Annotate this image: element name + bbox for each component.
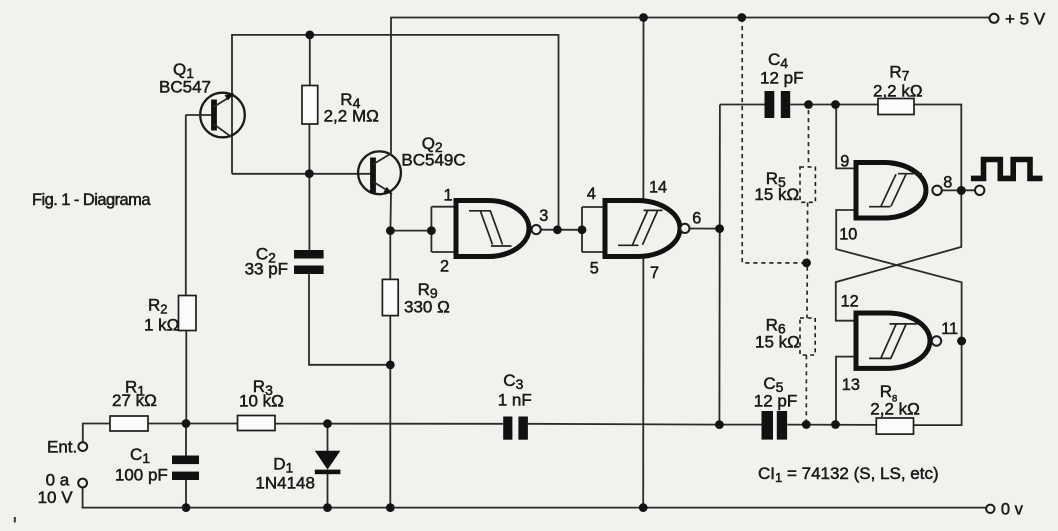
wire out11 net pin10 cross to R8 right [836, 210, 961, 425]
NAND gate U1d body [856, 313, 930, 368]
NAND gate U1a body [456, 201, 529, 257]
resistor R3 [238, 416, 276, 431]
resistor R9 [382, 279, 398, 315]
wire gate2 input bracket [582, 207, 605, 252]
wire pin9 [836, 105, 856, 169]
wire R4 bottom to C2 top [308, 124, 310, 250]
gate U1c output bubble [932, 186, 941, 195]
svg-text:12 pF: 12 pF [754, 392, 797, 411]
wire C2 bottom to R9 junction [309, 274, 390, 365]
transistor Q1 [186, 93, 245, 138]
schmitt icon U1d [869, 324, 918, 359]
resistor R7 [878, 99, 914, 115]
svg-text:13: 13 [842, 376, 860, 394]
wire C3 to C5 node [528, 423, 720, 426]
capacitor C3 plates [503, 417, 512, 440]
svg-text:1N4148: 1N4148 [255, 473, 315, 492]
node 3 [553, 225, 562, 234]
svg-text:0 v: 0 v [1001, 501, 1024, 519]
wire dashed R5 bottom to R6 top [806, 203, 809, 319]
terminal Ent [78, 442, 87, 451]
output square wave symbol [971, 160, 1043, 179]
svg-text:1: 1 [444, 187, 453, 205]
resistor R6 dashed body [800, 318, 815, 355]
node gate2 bracket [578, 225, 587, 234]
svg-text:BC547: BC547 [159, 77, 211, 96]
diode D1 [315, 451, 341, 470]
wire D1 cathode to ground [327, 474, 329, 508]
wire dashed R5 top lead [808, 110, 810, 167]
node output 11 [957, 337, 966, 346]
transistor Q2 [358, 151, 401, 194]
capacitor C5 plates [762, 411, 774, 440]
node R5 bottom dashed [802, 259, 811, 268]
wire Ent terminal to R1 [83, 424, 110, 443]
wire emitter node to gate1 bracket [390, 230, 431, 232]
svg-text:9: 9 [840, 152, 849, 170]
node R9 C2 [386, 361, 395, 370]
svg-text:BC549C: BC549C [401, 150, 465, 169]
svg-text:CI1 = 74132 (S, LS, etc): CI1 = 74132 (S, LS, etc) [758, 464, 939, 485]
node +5V power pin [639, 13, 648, 22]
node ground C1 [182, 503, 191, 512]
terminal 0v [986, 505, 994, 513]
wire out8 to output terminal [942, 189, 975, 191]
svg-text:7: 7 [650, 264, 659, 282]
NAND gate U1b body [605, 201, 680, 257]
wire input node to C1 [185, 424, 187, 456]
node D1 anode [323, 419, 332, 428]
node gate1 bracket [427, 226, 436, 235]
svg-text:2,2 MΩ: 2,2 MΩ [324, 106, 379, 125]
NAND gate U1c body [856, 163, 926, 219]
wire node3 gate1 out to gate2 bracket [541, 229, 582, 231]
svg-text:11: 11 [941, 320, 958, 338]
wire 0v bottom rail [82, 507, 987, 509]
svg-text:1 nF: 1 nF [498, 390, 532, 409]
wire R3 to C3 [275, 423, 503, 425]
node R4 bottom [305, 169, 314, 178]
node ground power pin [639, 503, 648, 512]
terminal 0a10V [78, 479, 87, 488]
svg-text:10: 10 [839, 226, 857, 244]
svg-text:0 a: 0 a [46, 471, 70, 490]
stray mark bottom left [14, 517, 16, 523]
wire C5 left lead [719, 424, 761, 426]
node R4 top [305, 31, 314, 40]
wire R1 to R3 [148, 423, 238, 425]
svg-text:Fig. 1 - Diagrama: Fig. 1 - Diagrama [32, 191, 151, 209]
node ground D1 [323, 503, 332, 512]
gate U1d output bubble [932, 336, 941, 345]
wire node6 gate2 out to C4 column [690, 228, 720, 230]
wire R9 bottom to ground [389, 316, 391, 508]
gate U1b output bubble [680, 224, 689, 233]
wire dashed R6 bottom lead [805, 355, 807, 424]
wire Q2 emitter lead [389, 193, 392, 231]
wire pin13 to C5 node [836, 357, 856, 425]
gate U1a output bubble [532, 225, 541, 234]
svg-text:+ 5 V: + 5 V [1005, 9, 1046, 28]
node C4 R5 [804, 100, 813, 109]
svg-text:5: 5 [590, 259, 599, 277]
node output 8 [957, 186, 966, 195]
svg-text:12 pF: 12 pF [760, 69, 803, 88]
wire 0a terminal stub [82, 488, 84, 508]
svg-text:15 kΩ: 15 kΩ [754, 185, 799, 204]
wire gate1 input bracket [431, 207, 456, 252]
svg-text:10 V: 10 V [38, 488, 74, 507]
wire R2 bottom to input node [185, 331, 187, 424]
schmitt icon U1c [869, 174, 922, 207]
svg-text:10 kΩ: 10 kΩ [239, 391, 284, 410]
schmitt icon U1b [618, 210, 663, 245]
svg-text:3: 3 [539, 207, 548, 225]
svg-text:2,2 kΩ: 2,2 kΩ [870, 400, 920, 419]
node R6 bottom [802, 420, 811, 429]
svg-text:330 Ω: 330 Ω [404, 298, 450, 317]
wire D1 anode lead [327, 424, 329, 451]
wire C1 bottom to ground [185, 480, 187, 508]
capacitor C1 plates [172, 456, 199, 465]
svg-text:27 kΩ: 27 kΩ [112, 391, 157, 410]
node +5V R5 dashed [737, 13, 746, 22]
svg-text:8: 8 [943, 174, 952, 192]
wire Q1 collector loop to node3 column [232, 35, 559, 230]
wire R4 top lead [309, 35, 311, 86]
wire R9 top lead [389, 231, 391, 280]
wire IC power line pins 14-7 [642, 18, 644, 508]
wire C4 right lead to R7 [790, 104, 878, 106]
terminal +5V [990, 14, 999, 23]
wire C5 right to R8 [787, 424, 876, 426]
svg-text:12: 12 [841, 293, 859, 311]
resistor R2 [179, 296, 197, 331]
svg-text:15 kΩ: 15 kΩ [755, 332, 800, 351]
svg-text:33 pF: 33 pF [245, 260, 288, 279]
wire Q1 base to R2 [185, 115, 187, 296]
node pin13 [831, 420, 840, 429]
svg-text:4: 4 [587, 185, 596, 203]
svg-text:100 pF: 100 pF [115, 465, 168, 484]
node input junction [182, 419, 191, 428]
node C5 left [715, 420, 724, 429]
wire C4 column down to C5 [718, 105, 721, 425]
svg-text:2,2 kΩ: 2,2 kΩ [873, 81, 923, 100]
capacitor C4 plates [765, 91, 775, 118]
svg-text:14: 14 [649, 178, 667, 196]
wire out8 net R7 right to pin12 [836, 105, 962, 321]
node ground R9 [386, 503, 395, 512]
svg-text:1 kΩ: 1 kΩ [144, 315, 179, 334]
wire dashed +5V to R5 bottom [742, 18, 803, 263]
resistor R4 [302, 86, 318, 125]
svg-text:Ent.: Ent. [47, 437, 77, 456]
resistor R5 dashed body [800, 167, 815, 202]
capacitor C2 plates [294, 250, 324, 259]
resistor R8 [876, 418, 913, 434]
terminal output 8 [975, 186, 984, 195]
svg-text:6: 6 [692, 210, 701, 228]
schmitt icon U1a [469, 211, 512, 246]
node C4 pin9 [831, 100, 840, 109]
wire C4 left lead [720, 104, 765, 106]
resistor R1 [110, 416, 148, 431]
node 6 [715, 224, 724, 233]
svg-text:2: 2 [440, 258, 449, 276]
wire +5V rail and Q2 collector [391, 18, 991, 154]
node Q2 emitter [386, 226, 395, 235]
wire base rail y=173.8 [232, 173, 371, 175]
